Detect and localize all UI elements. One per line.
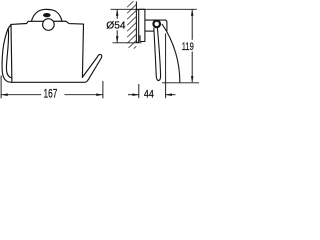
svg-text:44: 44	[144, 89, 154, 100]
svg-text:167: 167	[44, 88, 58, 101]
svg-text:Ø54: Ø54	[106, 20, 125, 32]
svg-text:119: 119	[182, 41, 194, 53]
